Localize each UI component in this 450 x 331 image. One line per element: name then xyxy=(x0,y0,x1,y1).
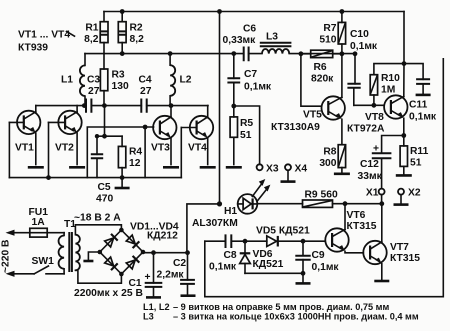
svg-text:R3: R3 xyxy=(112,70,125,81)
svg-text:0,1мк: 0,1мк xyxy=(312,262,340,273)
node junction top rail / R2 xyxy=(120,9,125,14)
svg-text:H1: H1 xyxy=(224,206,237,217)
svg-text:C10: C10 xyxy=(350,29,369,40)
svg-text:C11: C11 xyxy=(409,99,428,110)
transformer T1 xyxy=(59,212,122,283)
node junction mid rail / C7 R5 xyxy=(231,51,236,56)
node junction feed split xyxy=(217,201,222,206)
diode VD5 xyxy=(256,226,310,247)
node junction C9 bottom xyxy=(301,271,306,276)
svg-text:R11: R11 xyxy=(410,146,429,157)
ground C1 xyxy=(146,296,161,299)
svg-text:L2: L2 xyxy=(180,75,192,86)
svg-text:L1, L2: L1, L2 xyxy=(143,302,170,312)
svg-text:VT2: VT2 xyxy=(55,143,74,154)
resistor R4 xyxy=(118,136,142,177)
node junction mid rail / VT5 base feed xyxy=(299,51,304,56)
svg-text:+: + xyxy=(373,143,379,154)
svg-text:X1: X1 xyxy=(366,188,379,199)
transistor VT3 xyxy=(151,106,177,165)
ground VT7 emitter xyxy=(374,280,389,283)
svg-text:VT8: VT8 xyxy=(365,112,384,123)
capacitor C8 xyxy=(209,234,237,272)
svg-text:R7: R7 xyxy=(323,23,336,34)
svg-text:C9: C9 xyxy=(312,250,325,261)
node junction mid rail / L2 top xyxy=(168,51,173,56)
svg-text:КД521: КД521 xyxy=(253,259,284,270)
svg-text:51: 51 xyxy=(410,157,422,168)
svg-text:C8: C8 xyxy=(224,250,237,261)
transistor VT4 xyxy=(181,106,213,165)
svg-text:C2: C2 xyxy=(173,258,186,269)
capacitor C2 xyxy=(157,253,195,295)
diode VD1 xyxy=(105,238,114,247)
ground bridge minus xyxy=(83,252,99,261)
resistor R1 xyxy=(84,12,108,54)
svg-text:C7: C7 xyxy=(244,69,257,80)
resistor R2 xyxy=(118,12,144,54)
resistor R7 xyxy=(319,12,345,54)
svg-text:C6: C6 xyxy=(243,24,256,35)
transistor VT6 xyxy=(325,204,376,253)
inductor L2 xyxy=(170,54,192,106)
svg-text:470: 470 xyxy=(96,193,113,204)
node junction VT6 collector xyxy=(343,201,348,206)
ground R5 xyxy=(226,166,242,169)
node junction bus / VT2 rail xyxy=(46,175,51,180)
resistor R9 xyxy=(303,190,338,208)
wire R3 bottom node y=136.2 xyxy=(97,106,122,137)
inductor L3 xyxy=(260,31,292,53)
svg-text:SW1: SW1 xyxy=(32,256,55,267)
wire common return loop xyxy=(205,59,443,297)
resistor R10 xyxy=(370,64,404,106)
svg-text:R9 560: R9 560 xyxy=(305,190,338,201)
arrow mains top xyxy=(6,230,15,236)
capacitor C10 xyxy=(347,29,378,105)
wire detector row y=241.2 xyxy=(205,240,325,242)
ground C2 xyxy=(181,294,196,297)
wire plus supply y=252.7 xyxy=(143,252,188,254)
ground X4 xyxy=(281,170,296,181)
svg-text:R8: R8 xyxy=(323,146,336,157)
wire X3 branch xyxy=(234,106,260,164)
transistor VT8 xyxy=(347,12,407,136)
svg-text:КД212: КД212 xyxy=(147,231,178,242)
svg-text:27: 27 xyxy=(140,86,152,97)
capacitor C11 xyxy=(404,64,437,123)
footnote coil winding notes xyxy=(143,302,419,322)
svg-text:2200мк x 25 В: 2200мк x 25 В xyxy=(74,288,143,299)
svg-text:R2: R2 xyxy=(130,23,143,34)
node junction collector bus / L2 VT3 xyxy=(169,103,174,108)
terminal X1 xyxy=(366,188,385,199)
svg-text:R10: R10 xyxy=(381,73,400,84)
svg-text:AL307КМ: AL307КМ xyxy=(192,218,238,229)
diode VD6 xyxy=(240,241,284,273)
terminal X2 xyxy=(398,188,421,199)
ground VT3 emitter xyxy=(163,166,179,169)
wire long vertical feed x=219.5 xyxy=(219,12,221,204)
wire VT3 base link y=127 xyxy=(87,127,153,178)
node junction base link / VT3 rail xyxy=(143,125,148,130)
svg-text:0,1мк: 0,1мк xyxy=(350,41,378,52)
node junction VT8 collector / R10 / C11 xyxy=(402,61,407,66)
diode VD4 xyxy=(126,260,135,269)
wire mains fuse row xyxy=(12,232,65,234)
resistor R3 xyxy=(100,54,129,106)
wire mid rail y=53.6 xyxy=(85,53,355,55)
capacitor C9 xyxy=(295,241,339,273)
svg-text:0,33мк: 0,33мк xyxy=(223,35,257,46)
node junction C2 riser xyxy=(185,250,190,255)
switch SW1 xyxy=(32,256,55,274)
svg-text:27: 27 xyxy=(88,86,100,97)
node junction collector bus / R3 xyxy=(102,103,107,108)
ground below R4 bus xyxy=(115,178,130,188)
wire C10 to VT8 base xyxy=(354,104,384,106)
svg-text:~18 В 2 А: ~18 В 2 А xyxy=(74,212,121,223)
svg-text:8,2: 8,2 xyxy=(130,34,145,45)
svg-text:12: 12 xyxy=(129,158,141,169)
wire collector bus y=105.6 xyxy=(36,105,208,107)
diode VD3 xyxy=(105,257,114,266)
svg-text:VT4: VT4 xyxy=(188,143,207,154)
svg-text:FU1: FU1 xyxy=(29,207,49,218)
node junction R3 bottom xyxy=(102,134,107,139)
capacitor C5 xyxy=(91,136,114,204)
node junction collector bus / L1 C3 xyxy=(82,103,87,108)
wire common base bus y=177.6 xyxy=(9,177,181,179)
wire detector ground row y=273.3 xyxy=(245,272,303,274)
transistor VT1 xyxy=(9,106,40,165)
svg-text:1М: 1М xyxy=(381,85,395,96)
node junction VD6 top xyxy=(243,239,248,244)
node junction mid rail / R7 VT5 collector xyxy=(340,51,345,56)
svg-text:X3: X3 xyxy=(266,163,279,174)
capacitor C7 xyxy=(227,54,272,106)
node junction C1 xyxy=(151,250,156,255)
svg-text:VD5 КД521: VD5 КД521 xyxy=(256,226,310,237)
ground VT4 emitter xyxy=(200,166,216,169)
wire VT5 base feed xyxy=(301,54,322,106)
svg-text:C1: C1 xyxy=(129,278,142,289)
svg-text:0,1мк: 0,1мк xyxy=(409,111,437,122)
resistor R6 xyxy=(301,50,342,84)
wire supply riser xyxy=(187,204,220,253)
terminal X3 xyxy=(257,163,279,174)
node junction C5 top xyxy=(95,134,99,138)
label VT1...VT4 KT939 xyxy=(18,30,75,54)
resistor R11 xyxy=(400,136,428,175)
wire VT3 base rail down xyxy=(144,127,146,178)
capacitor C6 xyxy=(223,24,257,62)
svg-text:51: 51 xyxy=(240,130,252,141)
svg-text:0,1мк: 0,1мк xyxy=(209,262,237,273)
svg-text:R1: R1 xyxy=(85,23,98,34)
node junction mid rail / R2 bottom xyxy=(120,51,125,56)
capacitor C1 electrolytic xyxy=(74,253,162,300)
svg-text:– 3 витка на кольце 10х6х3 10: – 3 витка на кольце 10х6х3 1000НН пров. … xyxy=(173,312,419,322)
svg-text:VT7: VT7 xyxy=(390,242,409,253)
node junction bus / R4 xyxy=(120,175,125,180)
capacitor C12 electrolytic xyxy=(358,136,404,189)
svg-text:C12: C12 xyxy=(360,159,379,170)
svg-text:КТ315: КТ315 xyxy=(390,253,420,264)
node junction R10 bottom / VT8 base xyxy=(372,103,377,108)
ground VT1 emitter xyxy=(28,166,44,169)
svg-text:– 9 витков на оправке 5 мм про: – 9 витков на оправке 5 мм пров. диам. 0… xyxy=(173,302,389,312)
wire top supply rail y=11.5 xyxy=(104,11,404,13)
svg-text:~220 В: ~220 В xyxy=(1,240,12,274)
node junction VT8 emitter xyxy=(401,133,406,138)
wire output row y=203.7 xyxy=(257,195,382,204)
LED H1 xyxy=(192,179,270,229)
svg-text:VT3: VT3 xyxy=(151,143,170,154)
svg-text:+: + xyxy=(144,272,150,283)
svg-text:VT6: VT6 xyxy=(347,210,366,221)
capacitor C3 xyxy=(86,75,100,113)
transistor VT7 xyxy=(363,204,420,280)
diode VD2 xyxy=(126,235,135,244)
svg-text:1А: 1А xyxy=(32,217,46,228)
svg-text:L3: L3 xyxy=(143,312,154,322)
node junction C9 top xyxy=(301,239,306,244)
svg-text:2,2мк: 2,2мк xyxy=(157,270,185,281)
diode bridge VD1-VD4 xyxy=(98,222,179,277)
svg-text:X4: X4 xyxy=(295,163,308,174)
wire VT2 base rail xyxy=(48,122,50,177)
node junction C7 R5 X3 xyxy=(231,104,236,109)
svg-text:VT5: VT5 xyxy=(303,109,322,120)
svg-text:КТ3130А9: КТ3130А9 xyxy=(271,122,320,133)
arrow mains bottom xyxy=(6,271,15,277)
ground VT2 emitter xyxy=(69,166,85,169)
svg-text:R6: R6 xyxy=(314,62,327,73)
svg-text:300: 300 xyxy=(319,158,336,169)
wire VT1 base rail xyxy=(8,122,10,177)
svg-text:VT1: VT1 xyxy=(15,143,34,154)
svg-text:510: 510 xyxy=(319,34,336,45)
inductor L1 xyxy=(61,54,85,106)
resistor R5 xyxy=(230,106,253,165)
resistor R8 xyxy=(319,145,345,173)
svg-text:R5: R5 xyxy=(240,118,253,129)
wire VT4 base rail xyxy=(180,128,182,178)
ground C11 xyxy=(416,94,431,97)
svg-text:VT1 ... VT4: VT1 ... VT4 xyxy=(18,30,70,41)
svg-text:X2: X2 xyxy=(408,188,421,199)
svg-text:33мк: 33мк xyxy=(358,171,383,182)
terminal X4 xyxy=(285,163,307,174)
transistor VT5 xyxy=(271,54,345,145)
fuse FU1 xyxy=(29,207,49,237)
ground X2 xyxy=(394,195,409,205)
node junction VT7 collector X1 xyxy=(379,201,384,206)
wire switch row xyxy=(12,273,65,275)
node junction top rail / R7 xyxy=(340,9,345,14)
ground C9 xyxy=(296,273,311,283)
svg-text:КТ315: КТ315 xyxy=(347,221,377,232)
capacitor C4 xyxy=(139,75,152,113)
svg-text:C4: C4 xyxy=(139,75,152,86)
transistor VT2 xyxy=(49,106,82,165)
svg-text:C5: C5 xyxy=(98,182,111,193)
svg-text:КТ939: КТ939 xyxy=(18,43,48,54)
svg-text:C3: C3 xyxy=(87,75,100,86)
svg-text:820к: 820к xyxy=(311,74,334,85)
ground R11 xyxy=(396,174,412,177)
svg-text:КТ972А: КТ972А xyxy=(347,123,385,134)
node junction mid rail / C10 top xyxy=(353,51,358,56)
svg-text:0,1мк: 0,1мк xyxy=(244,82,272,93)
node junction top rail / long vertical xyxy=(217,9,222,14)
svg-text:L1: L1 xyxy=(61,75,73,86)
ground R8 xyxy=(334,173,350,176)
svg-text:8,2: 8,2 xyxy=(84,34,99,45)
svg-text:130: 130 xyxy=(112,81,129,92)
svg-text:R4: R4 xyxy=(129,147,142,158)
svg-text:L3: L3 xyxy=(266,31,278,42)
